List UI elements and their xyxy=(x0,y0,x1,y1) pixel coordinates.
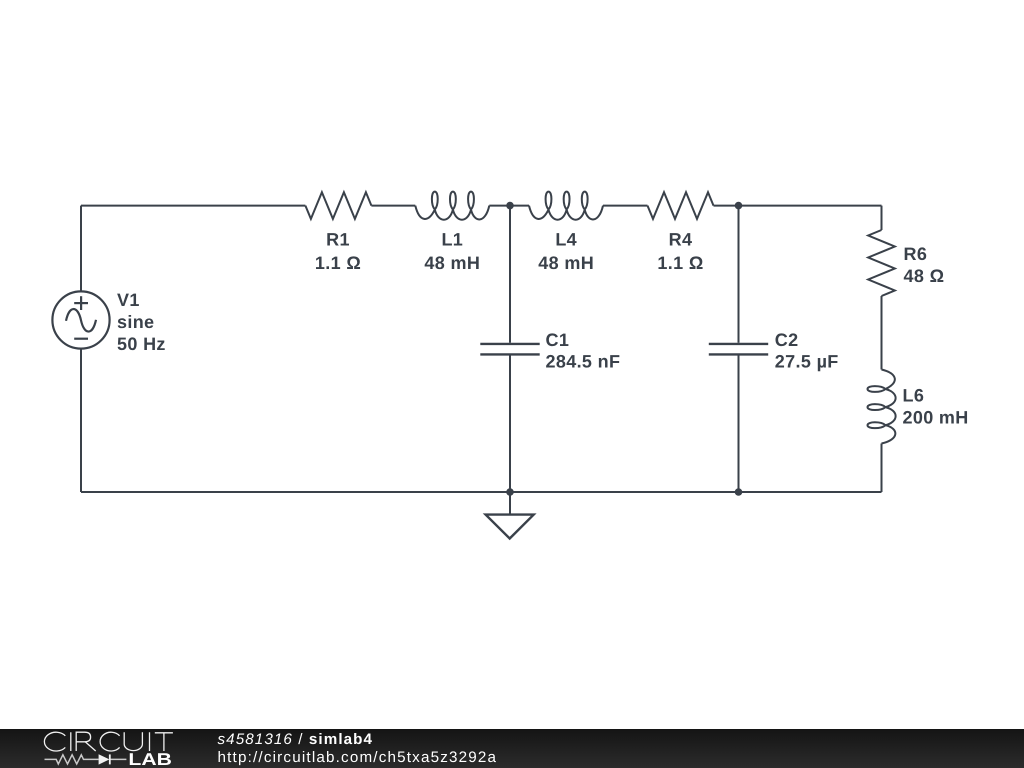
svg-text:L6: L6 xyxy=(903,386,925,406)
svg-text:48 mH: 48 mH xyxy=(538,253,594,273)
svg-text:R6: R6 xyxy=(904,244,928,264)
svg-text:284.5 nF: 284.5 nF xyxy=(546,352,621,372)
svg-text:27.5 µF: 27.5 µF xyxy=(775,352,839,372)
svg-text:L1: L1 xyxy=(441,230,463,250)
svg-text:LAB: LAB xyxy=(128,750,172,768)
svg-text:50 Hz: 50 Hz xyxy=(117,334,166,354)
svg-text:sine: sine xyxy=(117,312,154,332)
svg-text:1.1 Ω: 1.1 Ω xyxy=(657,253,703,273)
svg-text:V1: V1 xyxy=(117,290,140,310)
svg-text:1.1 Ω: 1.1 Ω xyxy=(315,253,361,273)
svg-text:R4: R4 xyxy=(669,230,693,250)
svg-text:48 Ω: 48 Ω xyxy=(904,266,945,286)
svg-text:C2: C2 xyxy=(775,330,799,350)
svg-text:http://circuitlab.com/ch5txa5z: http://circuitlab.com/ch5txa5z3292a xyxy=(218,749,497,766)
svg-text:C1: C1 xyxy=(546,330,570,350)
svg-text:L4: L4 xyxy=(555,230,577,250)
svg-text:48 mH: 48 mH xyxy=(424,253,480,273)
svg-text:R1: R1 xyxy=(326,230,350,250)
svg-text:s4581316 / simlab4: s4581316 / simlab4 xyxy=(218,731,373,748)
svg-text:200 mH: 200 mH xyxy=(903,407,969,427)
